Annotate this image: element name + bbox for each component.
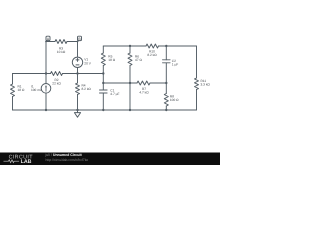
resistor R7 4.7 kOhm: [137, 81, 150, 95]
svg-text:V1: V1: [84, 58, 88, 62]
wire right edge column x=196.5: [196, 46, 198, 110]
wire V1-R4 column stubs: [77, 42, 79, 111]
resistor R2 22 kOhm: [51, 72, 63, 86]
svg-text:4.7 µF: 4.7 µF: [110, 92, 119, 96]
svg-text:4.7 kΩ: 4.7 kΩ: [139, 91, 148, 95]
svg-text:R5: R5: [108, 55, 112, 59]
svg-text:R3: R3: [59, 47, 63, 51]
svg-text:R6: R6: [135, 55, 139, 59]
wire middle-left rail y=73.5: [13, 73, 104, 75]
svg-text:R7: R7: [142, 87, 146, 91]
wire R6 column x=130: [129, 46, 131, 110]
capacitor C2 1 uF: [163, 59, 179, 66]
current source I1 100 mA: [31, 84, 51, 94]
ground: [74, 110, 80, 117]
wire bottom rail: [13, 109, 197, 111]
svg-text:3.3 kΩ: 3.3 kΩ: [201, 83, 210, 87]
svg-text:100 mA: 100 mA: [31, 88, 42, 92]
svg-text:8.2 kΩ: 8.2 kΩ: [82, 88, 91, 92]
svg-text:8.2 kΩ: 8.2 kΩ: [147, 53, 156, 57]
svg-text:22 kΩ: 22 kΩ: [52, 82, 61, 86]
wire middle row y=83: [103, 82, 166, 84]
svg-text:C1: C1: [110, 89, 114, 93]
capacitor C1 4.7 uF: [100, 89, 120, 96]
svg-text:47 Ω: 47 Ω: [135, 59, 142, 63]
resistor R5 18 Ohm: [101, 53, 115, 65]
resistor R6 47 Ohm: [128, 53, 142, 65]
svg-text:R4: R4: [82, 84, 86, 88]
resistor R4 8.2 kOhm: [76, 83, 91, 94]
footer bar: [0, 153, 220, 166]
wire I1 column stubs: [45, 74, 47, 111]
wire right section left column x=103.3: [102, 46, 104, 110]
wire C2-R8 column x=166.3: [165, 46, 167, 110]
resistor R8 100 Ohm: [164, 94, 178, 107]
svg-text:20 V: 20 V: [84, 62, 91, 66]
CircuitLab logo: [4, 155, 34, 166]
wire top A-B row: [46, 41, 78, 43]
wire top rail y=46: [103, 45, 196, 47]
svg-text:18 Ω: 18 Ω: [18, 88, 25, 92]
wire left rail x=12.5: [12, 74, 14, 111]
svg-text:I1: I1: [31, 85, 34, 89]
resistor R11 3.3 kOhm: [195, 78, 210, 89]
svg-text:R1: R1: [18, 85, 22, 89]
resistor R10 8.2 kOhm: [146, 44, 158, 57]
svg-text:C2: C2: [172, 59, 176, 63]
svg-text:100 Ω: 100 Ω: [170, 99, 179, 103]
svg-text:R10: R10: [149, 50, 155, 54]
svg-text:LAB: LAB: [21, 159, 32, 165]
voltage source V1 20 V: [72, 57, 91, 67]
svg-text:1 µF: 1 µF: [172, 63, 179, 67]
svg-text:R11: R11: [201, 80, 207, 84]
svg-text:R2: R2: [54, 78, 58, 82]
wire node A column down: [45, 42, 47, 74]
node A flag: [46, 36, 50, 41]
svg-text:juli / Unnamed Circuit: juli / Unnamed Circuit: [45, 153, 83, 157]
svg-text:18 Ω: 18 Ω: [108, 59, 115, 63]
footer title text: [45, 153, 89, 162]
node B flag: [78, 36, 82, 41]
resistor R3 10 kOhm: [55, 40, 67, 54]
svg-text:10 kΩ: 10 kΩ: [57, 50, 66, 54]
svg-text:R8: R8: [170, 95, 174, 99]
svg-text:http://circuitlab.com/c/hvf7ke: http://circuitlab.com/c/hvf7ke: [46, 158, 89, 162]
junction dots: [45, 45, 168, 111]
resistor R1 18 Ohm: [11, 84, 25, 97]
